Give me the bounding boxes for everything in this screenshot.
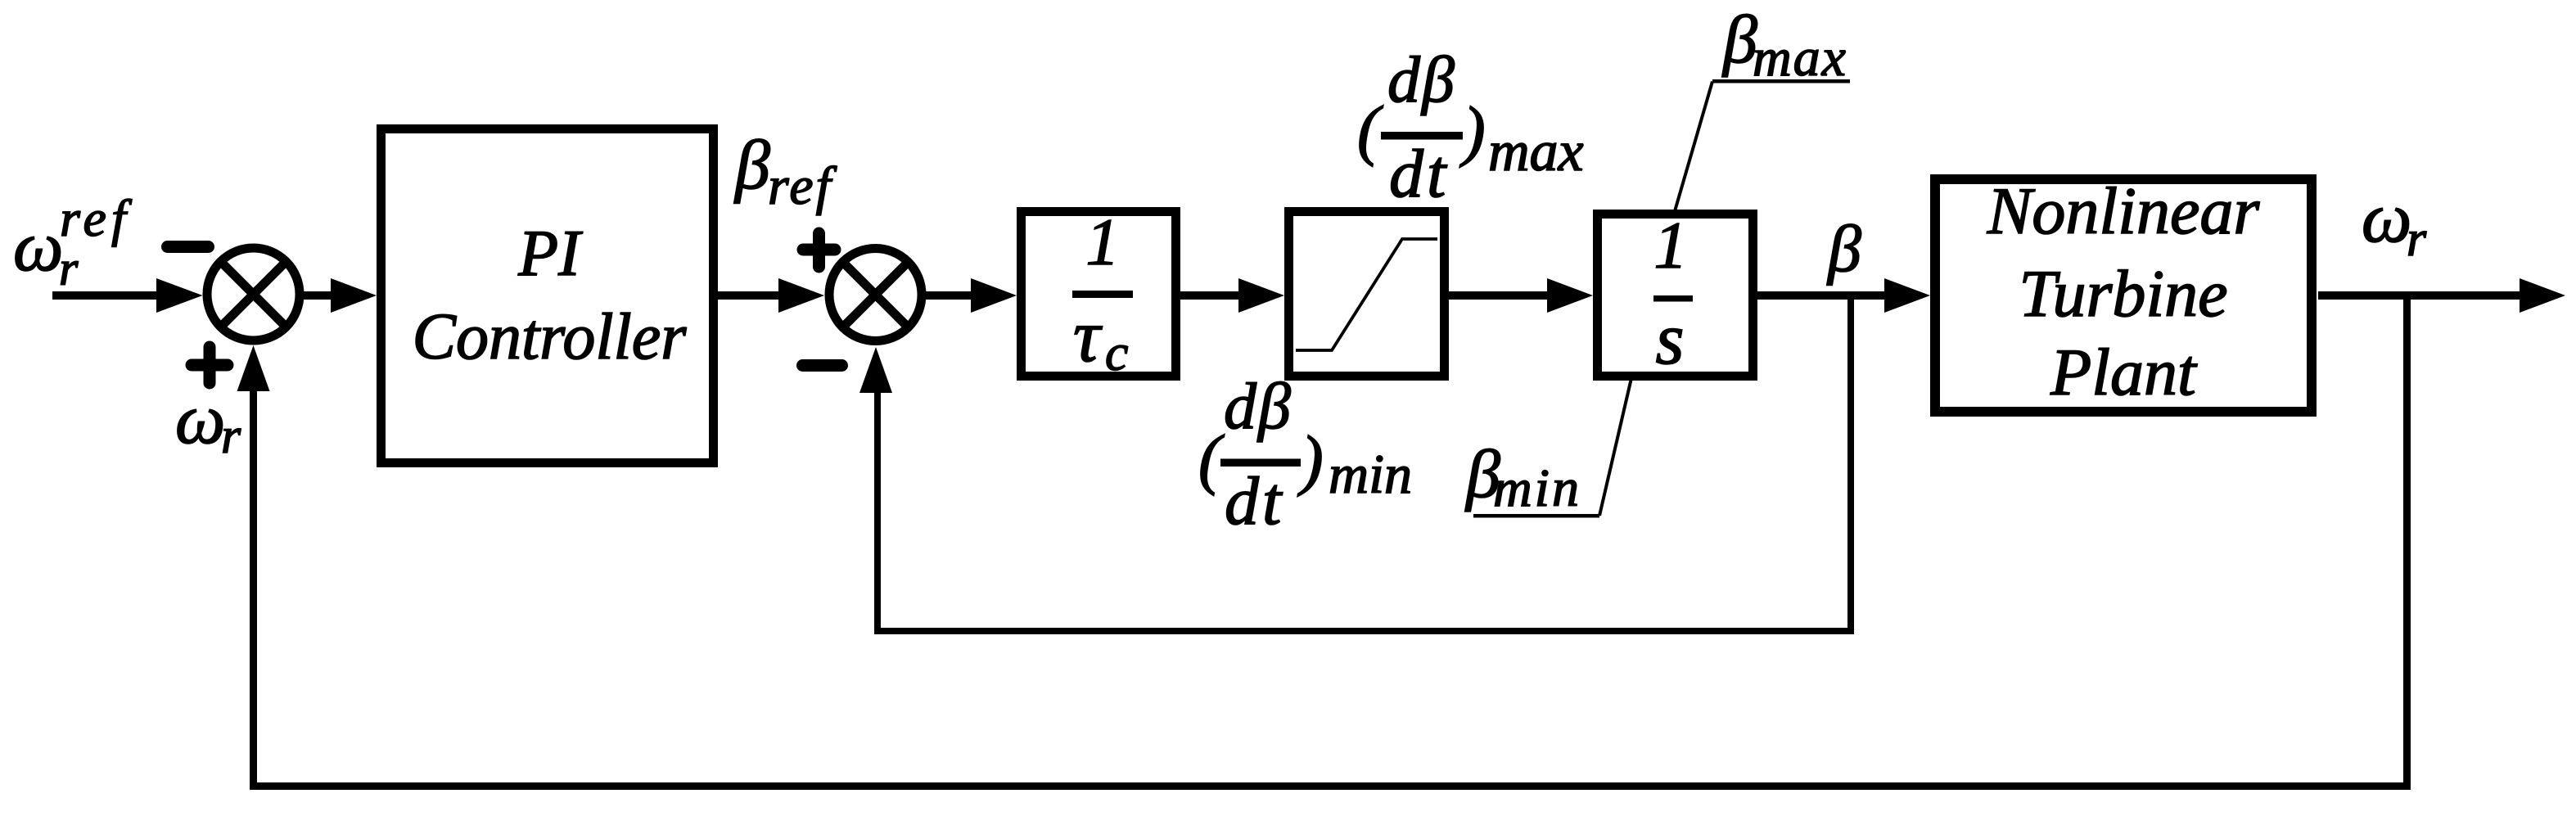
svg-text:dβ: dβ	[1387, 44, 1456, 116]
label (dbeta/dt)_max	[1357, 44, 1584, 212]
svg-text:1: 1	[1654, 208, 1688, 282]
svg-text:β: β	[1826, 211, 1861, 286]
wire saturation to integrator 1/s	[1449, 278, 1593, 313]
svg-text:min: min	[1493, 458, 1581, 518]
svg-text:Turbine: Turbine	[2019, 256, 2227, 331]
svg-text:ref: ref	[768, 156, 837, 216]
svg-text:1: 1	[1086, 205, 1120, 279]
svg-text:dt: dt	[1389, 136, 1449, 212]
sign minus at summing junction S2	[803, 359, 842, 372]
svg-text:s: s	[1655, 299, 1684, 380]
wire 1/s to plant with tap node	[1757, 278, 1930, 313]
wire input arrow	[52, 278, 203, 313]
svg-text:ref: ref	[60, 189, 133, 247]
sign plus at summing junction S1	[192, 347, 228, 383]
wire PI to summing junction S2	[718, 278, 824, 313]
svg-text:τ: τ	[1073, 294, 1103, 377]
svg-text:(: (	[1357, 92, 1383, 167]
svg-text:ω: ω	[2362, 178, 2411, 257]
block 1/tau_c	[1022, 205, 1176, 381]
wire inner feedback loop from beta node to S2	[859, 295, 1854, 634]
wire S1 to PI controller	[300, 278, 377, 313]
wire 1/tau_c to saturation block	[1180, 278, 1284, 313]
label omega_r^ref input	[13, 189, 133, 295]
svg-text:min: min	[1329, 443, 1412, 505]
svg-text:Plant: Plant	[2050, 335, 2198, 409]
label beta_min with leader line	[1464, 378, 1631, 518]
wire outer feedback loop from output node to S1	[237, 295, 2411, 790]
sign plus at summing junction S2	[803, 233, 835, 267]
wire plant to output arrow	[2318, 278, 2565, 313]
sign minus at summing junction S1	[168, 241, 209, 253]
svg-text:): )	[1297, 422, 1324, 497]
svg-text:(: (	[1198, 421, 1225, 496]
svg-text:PI: PI	[517, 218, 583, 290]
block PI Controller	[381, 129, 714, 463]
label omega_r output	[2362, 178, 2427, 267]
label beta_ref	[733, 125, 837, 216]
summing junction S2	[829, 249, 922, 341]
svg-text:Controller: Controller	[413, 301, 688, 373]
svg-text:max: max	[1753, 28, 1847, 88]
wire S2 to 1/tau_c block	[922, 278, 1017, 313]
svg-text:r: r	[2407, 211, 2427, 267]
label (dbeta/dt)_min	[1198, 371, 1412, 539]
svg-text:): )	[1459, 92, 1486, 168]
block Nonlinear Turbine Plant	[1935, 174, 2312, 412]
svg-text:ω: ω	[13, 206, 63, 286]
svg-text:ω: ω	[175, 379, 225, 458]
svg-text:β: β	[733, 125, 770, 204]
block saturation	[1289, 212, 1445, 376]
block integrator 1/s	[1598, 208, 1753, 380]
label omega_r feedback at S1	[175, 379, 241, 464]
svg-text:c: c	[1105, 323, 1128, 381]
svg-text:max: max	[1488, 120, 1584, 183]
svg-text:Nonlinear: Nonlinear	[1987, 174, 2261, 248]
svg-text:r: r	[221, 408, 241, 464]
svg-text:dβ: dβ	[1224, 371, 1293, 443]
svg-text:r: r	[59, 241, 79, 295]
summing junction S1	[207, 248, 300, 340]
svg-text:dt: dt	[1225, 463, 1284, 539]
label beta_max with leader line	[1675, 2, 1850, 211]
